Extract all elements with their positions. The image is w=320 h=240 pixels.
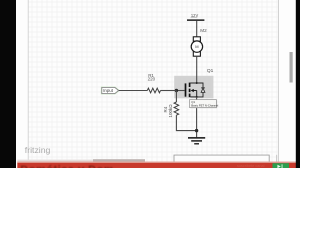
resistor R1: [147, 73, 160, 93]
svg-text:M2: M2: [200, 28, 207, 33]
canvas background: [0, 0, 300, 168]
resistor R4: [163, 102, 179, 118]
svg-text:fritzing: fritzing: [25, 145, 51, 155]
channel top segment (drain): [189, 83, 191, 87]
body arrow: [191, 89, 194, 92]
svg-text:Q1: Q1: [207, 68, 214, 74]
selection highlight box around Q1: [174, 76, 213, 99]
wire R1 to junction: [161, 90, 177, 92]
svg-text:▶❙: ▶❙: [277, 164, 284, 168]
wire motor to Q1 drain: [196, 56, 198, 83]
tooltip for Q1: [190, 100, 219, 109]
red banner: [17, 162, 296, 176]
wire Q1 source down: [196, 97, 198, 137]
canvas left edge line: [27, 0, 29, 163]
source/body vertical: [196, 91, 198, 97]
schematic grid: [29, 0, 279, 163]
source stub: [190, 96, 196, 98]
vertical scrollbar thumb: [290, 52, 293, 83]
right pillarbox bar: [296, 0, 300, 168]
horizontal scrollbar outline: [174, 155, 269, 161]
wire junction down to R4: [175, 91, 177, 103]
svg-text:M: M: [195, 44, 198, 49]
svg-text:12V: 12V: [191, 13, 199, 18]
left pillarbox bar: [0, 0, 16, 168]
wire Input to R1: [119, 90, 148, 92]
wire 12V to motor: [196, 21, 198, 37]
channel middle segment (body): [189, 89, 191, 92]
taskbar smudge above banner: [17, 160, 95, 163]
power symbol 12V: [187, 13, 204, 20]
wire gate lead: [176, 90, 184, 92]
transistor Q1 (N-channel MOSFET): [186, 82, 206, 98]
svg-text:Basic FET N-Channel: Basic FET N-Channel: [191, 103, 218, 107]
motor M2: [191, 37, 202, 56]
scrollbar tick: [276, 155, 278, 162]
net label flag Input: [102, 87, 119, 93]
svg-text:220: 220: [148, 77, 156, 82]
green button on banner: [273, 163, 290, 168]
body diode D internal: [197, 83, 203, 97]
svg-text:100kΩ: 100kΩ: [168, 104, 173, 118]
canvas right edge line: [278, 0, 280, 163]
node junction gate/R1/R4: [175, 89, 178, 92]
svg-text:Domótica y Dom: Domótica y Dom: [20, 164, 114, 168]
svg-text:suscribete canal: suscribete canal: [237, 164, 265, 168]
gate bar: [185, 83, 187, 96]
channel bottom segment (source): [189, 94, 191, 98]
drain stub: [190, 82, 196, 84]
wire R4 to bottom rail: [176, 115, 196, 131]
ground: [188, 138, 205, 144]
svg-text:Input: Input: [103, 88, 114, 93]
node source tee: [196, 96, 198, 98]
node drain tee: [196, 82, 198, 84]
node junction source/ground: [195, 129, 198, 132]
